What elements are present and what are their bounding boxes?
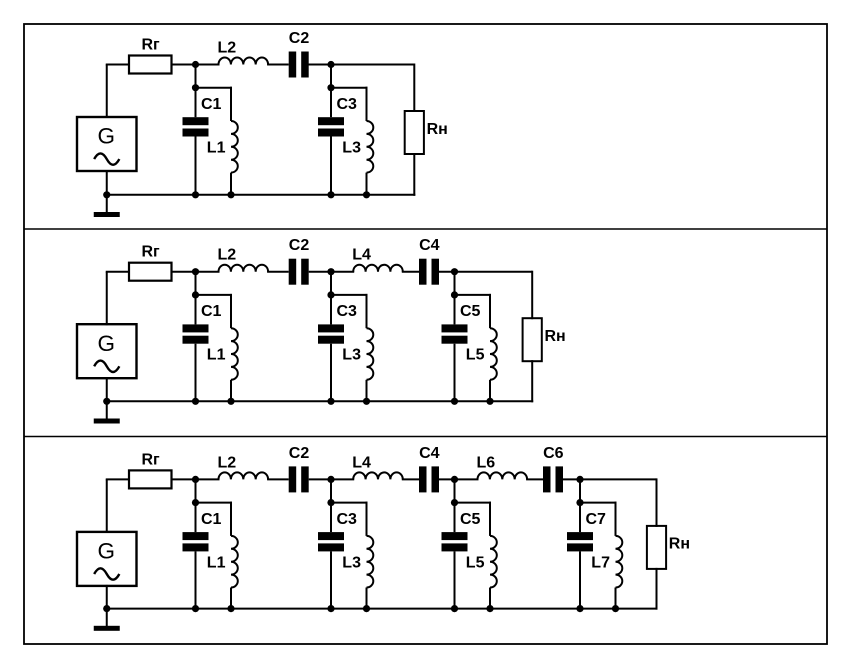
node C1 at ground rail (panel 3) xyxy=(192,605,199,612)
capacitor C2 (panel 2) xyxy=(289,259,297,285)
node L1 at ground rail (panel 3) xyxy=(227,605,234,612)
inductor L3 (panel 3) xyxy=(366,502,368,536)
wire C3 branch drop (panel 2) xyxy=(330,272,332,295)
wire C1 branch drop (panel 1) xyxy=(195,65,197,88)
wire L7 branch top (panel 3) xyxy=(580,502,617,504)
node L3 at ground rail (panel 3) xyxy=(363,605,370,612)
svg-text:L4: L4 xyxy=(352,247,371,264)
svg-text:C5: C5 xyxy=(460,303,481,320)
node C5 at ground rail (panel 2) xyxy=(451,398,458,405)
inductor L1 (panel 1) xyxy=(230,87,232,121)
node C5 at ground rail (panel 3) xyxy=(451,605,458,612)
capacitor C4 (panel 2) xyxy=(419,259,427,285)
wire to capacitor C6 (panel 3) xyxy=(526,478,543,480)
node junction generator/ground (panel 2) xyxy=(103,398,110,405)
wire top rail to Rn (panel 2) xyxy=(531,271,533,320)
node junction C7/L7 (panel 3) xyxy=(576,499,583,506)
generator G (panel 3) box xyxy=(77,532,137,586)
wire L1 branch top (panel 2) xyxy=(196,294,233,296)
wire to capacitor C2 (panel 3) xyxy=(267,478,289,480)
node A (panel 1) xyxy=(192,61,199,68)
svg-text:C1: C1 xyxy=(201,511,222,528)
node junction C1/L1 (panel 3) xyxy=(192,499,199,506)
capacitor C3 (panel 3) xyxy=(330,503,332,532)
node C7 at ground rail (panel 3) xyxy=(576,605,583,612)
capacitor C1 (panel 1) xyxy=(195,88,197,118)
inductor L3 (panel 2) xyxy=(366,294,368,328)
svg-text:Rг: Rг xyxy=(142,37,161,54)
inductor L2 (panel 3) xyxy=(219,472,269,479)
inductor L5 (panel 2) xyxy=(489,294,491,328)
inductor L4 (panel 3) xyxy=(353,472,403,479)
node L3 at ground rail (panel 1) xyxy=(363,191,370,198)
inductor L1 (panel 2) xyxy=(230,294,232,328)
node A (panel 2) xyxy=(192,268,199,275)
wire to inductor L2 (panel 3) xyxy=(172,478,220,480)
node L1 at ground rail (panel 2) xyxy=(227,398,234,405)
inductor L5 (panel 3) xyxy=(489,502,491,536)
wire generator top to Rg (panel 1) xyxy=(106,65,108,119)
wire L3 branch top (panel 3) xyxy=(331,502,368,504)
svg-text:L1: L1 xyxy=(207,347,226,364)
capacitor C3 (panel 1) xyxy=(330,88,332,118)
node A (panel 3) xyxy=(192,476,199,483)
ground (panel 2) xyxy=(106,401,108,419)
wire generator bottom to ground rail (panel 2) xyxy=(106,377,108,401)
svg-text:C2: C2 xyxy=(289,30,310,47)
inductor L4 (panel 2) xyxy=(353,265,403,272)
resistor Rn (panel 3) xyxy=(647,526,666,569)
wire L5 branch top (panel 2) xyxy=(455,294,492,296)
svg-text:C3: C3 xyxy=(337,303,358,320)
resistor Rg (panel 2) xyxy=(129,263,172,281)
wire last section to Rn corner (panel 1) xyxy=(308,64,415,66)
node C (panel 3) xyxy=(451,476,458,483)
resistor Rn (panel 1) xyxy=(405,111,424,154)
node junction C5/L5 (panel 3) xyxy=(451,499,458,506)
svg-text:C7: C7 xyxy=(586,511,607,528)
node junction C1/L1 (panel 1) xyxy=(192,84,199,91)
inductor L2 (panel 2) xyxy=(219,265,269,272)
wire L1 branch top (panel 1) xyxy=(196,87,233,89)
ground (panel 3) xyxy=(106,609,108,627)
svg-text:L3: L3 xyxy=(342,140,361,157)
wire C1 branch drop (panel 2) xyxy=(195,272,197,295)
node L3 at ground rail (panel 2) xyxy=(363,398,370,405)
generator G (panel 2) sine symbol xyxy=(94,361,119,372)
node B (panel 1) xyxy=(327,61,334,68)
capacitor C1 (panel 3) xyxy=(195,503,197,532)
svg-text:L7: L7 xyxy=(591,554,610,571)
wire ground rail (panel 1) xyxy=(107,194,416,196)
capacitor C5 (panel 2) xyxy=(454,295,456,325)
svg-text:C1: C1 xyxy=(201,303,222,320)
generator G (panel 2) box xyxy=(77,324,137,378)
svg-text:C6: C6 xyxy=(543,445,564,462)
wire generator top to Rg (panel 2) xyxy=(106,272,108,326)
svg-text:L3: L3 xyxy=(342,347,361,364)
wire top rail to Rn (panel 3) xyxy=(656,478,658,527)
svg-text:C3: C3 xyxy=(337,96,358,113)
wire to inductor L6 (panel 3) xyxy=(439,478,479,480)
wire to capacitor C2 (panel 1) xyxy=(267,64,289,66)
capacitor C2 (panel 1) xyxy=(289,52,297,78)
svg-text:L6: L6 xyxy=(477,454,496,471)
svg-text:Rн: Rн xyxy=(669,536,690,553)
wire C5 branch drop (panel 3) xyxy=(454,479,456,502)
wire L3 branch top (panel 2) xyxy=(331,294,368,296)
wire to capacitor C4 (panel 2) xyxy=(402,271,419,273)
svg-text:L1: L1 xyxy=(207,554,226,571)
panel divider 1 xyxy=(24,228,827,230)
capacitor C3 (panel 2) xyxy=(330,295,332,325)
node L5 at ground rail (panel 3) xyxy=(486,605,493,612)
wire top rail to Rn (panel 1) xyxy=(413,64,415,113)
svg-text:G: G xyxy=(97,331,115,356)
wire C5 branch drop (panel 2) xyxy=(454,272,456,295)
svg-text:Rн: Rн xyxy=(427,121,448,138)
inductor L6 (panel 3) xyxy=(478,472,528,479)
node C (panel 2) xyxy=(451,268,458,275)
node L5 at ground rail (panel 2) xyxy=(486,398,493,405)
wire Rn to ground rail (panel 2) xyxy=(531,360,533,402)
svg-text:L1: L1 xyxy=(207,140,226,157)
svg-text:G: G xyxy=(97,124,115,149)
wire last section to Rn corner (panel 2) xyxy=(438,271,532,273)
node C3 at ground rail (panel 1) xyxy=(327,191,334,198)
wire to inductor L2 (panel 2) xyxy=(172,271,220,273)
node B (panel 2) xyxy=(327,268,334,275)
capacitor C4 (panel 3) xyxy=(419,466,427,492)
node junction generator/ground (panel 3) xyxy=(103,605,110,612)
wire C1 branch drop (panel 3) xyxy=(195,479,197,502)
inductor L2 (panel 1) xyxy=(219,58,269,65)
svg-text:C3: C3 xyxy=(337,511,358,528)
wire to capacitor C2 (panel 2) xyxy=(267,271,289,273)
svg-text:C2: C2 xyxy=(289,445,310,462)
svg-text:L3: L3 xyxy=(342,554,361,571)
svg-text:C2: C2 xyxy=(289,237,310,254)
wire ground rail (panel 3) xyxy=(107,608,658,610)
wire L3 branch top (panel 1) xyxy=(331,87,368,89)
capacitor C7 (panel 3) xyxy=(579,503,581,532)
wire to capacitor C4 (panel 3) xyxy=(402,478,419,480)
node C3 at ground rail (panel 2) xyxy=(327,398,334,405)
wire C3 branch drop (panel 3) xyxy=(330,479,332,502)
wire to inductor L4 (panel 2) xyxy=(309,271,355,273)
ground (panel 1) xyxy=(106,195,108,213)
generator G (panel 3) sine symbol xyxy=(94,568,119,579)
inductor L7 (panel 3) xyxy=(615,502,617,536)
wire C7 branch drop (panel 3) xyxy=(579,479,581,502)
capacitor C5 (panel 3) xyxy=(454,503,456,532)
svg-text:G: G xyxy=(97,539,115,564)
wire last section to Rn corner (panel 3) xyxy=(562,478,657,480)
node B (panel 3) xyxy=(327,476,334,483)
svg-text:C4: C4 xyxy=(419,237,440,254)
svg-text:L4: L4 xyxy=(352,454,371,471)
capacitor C6 (panel 3) xyxy=(543,466,551,492)
wire generator bottom to ground rail (panel 1) xyxy=(106,170,108,195)
wire to inductor L2 (panel 1) xyxy=(172,64,220,66)
svg-text:L5: L5 xyxy=(466,554,485,571)
svg-text:C5: C5 xyxy=(460,511,481,528)
node L7 at ground rail (panel 3) xyxy=(612,605,619,612)
wire generator top to Rg (panel 3) xyxy=(106,479,108,533)
node C3 at ground rail (panel 3) xyxy=(327,605,334,612)
capacitor C1 (panel 2) xyxy=(195,295,197,325)
capacitor C2 (panel 3) xyxy=(289,466,297,492)
node junction C3/L3 (panel 2) xyxy=(327,291,334,298)
resistor Rn (panel 2) xyxy=(523,318,542,361)
node C1 at ground rail (panel 2) xyxy=(192,398,199,405)
svg-text:C4: C4 xyxy=(419,445,440,462)
svg-text:Rн: Rн xyxy=(545,328,566,345)
wire L5 branch top (panel 3) xyxy=(455,502,492,504)
svg-text:L2: L2 xyxy=(218,247,237,264)
svg-text:Rг: Rг xyxy=(142,451,161,468)
node C1 at ground rail (panel 1) xyxy=(192,191,199,198)
inductor L1 (panel 3) xyxy=(230,502,232,536)
node junction generator/ground (panel 1) xyxy=(103,191,110,198)
node junction C3/L3 (panel 3) xyxy=(327,499,334,506)
node D (panel 3) xyxy=(576,476,583,483)
inductor L3 (panel 1) xyxy=(366,87,368,121)
svg-text:L2: L2 xyxy=(218,40,237,57)
resistor Rg (panel 1) xyxy=(129,56,172,74)
wire generator bottom to ground rail (panel 3) xyxy=(106,585,108,609)
svg-text:C1: C1 xyxy=(201,96,222,113)
wire to inductor L4 (panel 3) xyxy=(309,478,355,480)
svg-text:L2: L2 xyxy=(218,454,237,471)
generator G (panel 1) sine symbol xyxy=(94,153,119,164)
wire Rn to ground rail (panel 3) xyxy=(656,568,658,610)
node junction C3/L3 (panel 1) xyxy=(327,84,334,91)
resistor Rg (panel 3) xyxy=(129,470,172,488)
generator G (panel 1) box xyxy=(77,117,137,171)
node L1 at ground rail (panel 1) xyxy=(227,191,234,198)
node junction C5/L5 (panel 2) xyxy=(451,291,458,298)
node junction C1/L1 (panel 2) xyxy=(192,291,199,298)
panel divider 2 xyxy=(24,436,827,438)
wire Rn to ground rail (panel 1) xyxy=(413,153,415,196)
svg-text:Rг: Rг xyxy=(142,244,161,261)
wire C3 branch drop (panel 1) xyxy=(330,65,332,88)
wire L1 branch top (panel 3) xyxy=(196,502,233,504)
wire ground rail (panel 2) xyxy=(107,400,533,402)
svg-text:L5: L5 xyxy=(466,347,485,364)
